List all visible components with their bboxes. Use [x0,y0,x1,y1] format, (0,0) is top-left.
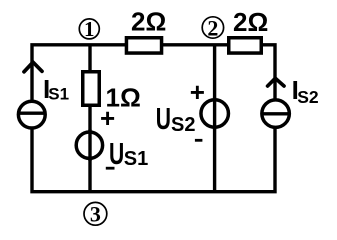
svg-text:1: 1 [84,17,95,41]
node 3 circle [84,202,107,225]
svg-text:2Ω: 2Ω [233,7,268,37]
resistor R3 1ohm vertical [83,72,100,106]
wire middle branch from node 2 to bottom rail [213,45,216,192]
svg-text:2Ω: 2Ω [131,7,166,37]
current source IS2 circle [262,100,290,128]
current source IS2 arrow [268,78,284,86]
current source IS1 arrow [24,62,42,72]
svg-text:S2: S2 [297,87,319,107]
node 2 circle [202,17,223,38]
resistor R2 2ohm horizontal top-right [229,38,262,53]
node 1 circle [79,19,99,39]
minus sign of US1 [106,167,115,170]
svg-text:S1: S1 [48,85,69,104]
voltage source US1 circle [76,132,102,158]
minus sign of US2 [195,139,203,142]
voltage source US2 through line [213,98,216,130]
svg-text:2: 2 [207,15,218,40]
voltage source US1 through line [88,130,91,162]
svg-text:U: U [156,101,171,136]
current source IS1 circle [18,101,45,128]
current source IS2 bar [262,112,289,115]
svg-text:S1: S1 [124,148,148,170]
wire middle branch from node 1 to bottom rail [88,45,91,192]
resistor R1 2ohm horizontal top-left [126,38,161,53]
voltage source US2 circle [201,100,229,128]
svg-text:U: U [109,136,124,171]
current source IS1 bar [18,112,45,115]
svg-text:3: 3 [90,202,101,227]
wire outer loop: left wire, top rail, right wire, bottom rail [32,45,275,192]
svg-text:+: + [100,103,115,133]
svg-text:S2: S2 [171,114,195,136]
svg-text:+: + [190,77,205,107]
